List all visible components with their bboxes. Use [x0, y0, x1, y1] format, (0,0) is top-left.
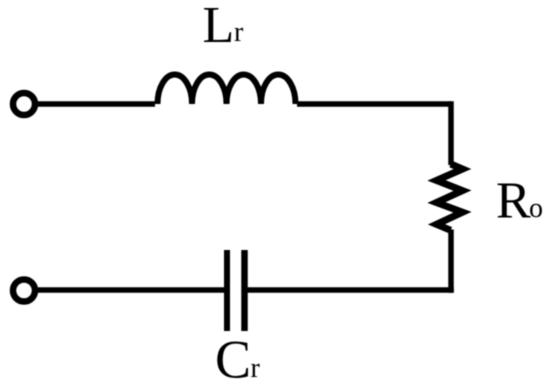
- wire right vertical upper: [448, 101, 454, 165]
- wire bottom-left horizontal: [38, 287, 228, 293]
- svg-text:L: L: [203, 0, 235, 54]
- terminal bottom-left: [13, 280, 35, 302]
- label Lr: [203, 0, 245, 54]
- svg-text:r: r: [234, 17, 244, 48]
- wire right vertical lower: [448, 230, 454, 293]
- resistor Ro: [437, 164, 463, 230]
- wire top-left horizontal: [38, 101, 156, 107]
- wire top-right horizontal: [297, 101, 451, 107]
- wire bottom-right horizontal: [245, 287, 454, 293]
- svg-text:o: o: [529, 193, 543, 224]
- svg-text:R: R: [496, 173, 531, 230]
- label Cr: [215, 330, 261, 387]
- svg-text:C: C: [215, 330, 251, 387]
- inductor Lr: [158, 75, 296, 105]
- terminal top-left: [13, 93, 35, 115]
- svg-text:r: r: [251, 353, 261, 384]
- capacitor Cr: [241, 250, 248, 331]
- label Ro: [496, 173, 543, 230]
